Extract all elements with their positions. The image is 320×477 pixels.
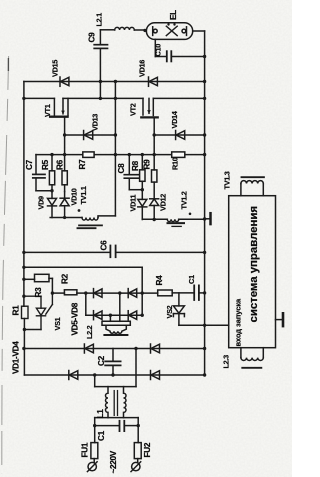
svg-text:C8: C8 <box>117 163 126 174</box>
svg-text:C1: C1 <box>97 430 106 441</box>
svg-text:FU2: FU2 <box>143 442 152 457</box>
svg-text:TV1.2: TV1.2 <box>180 191 189 209</box>
svg-text:VD10: VD10 <box>70 188 79 205</box>
svg-text:VD13: VD13 <box>91 114 100 131</box>
svg-text:L1: L1 <box>96 409 105 419</box>
svg-text:VD16: VD16 <box>138 60 147 77</box>
svg-text:VD9: VD9 <box>37 196 46 210</box>
svg-text:C2: C2 <box>97 355 106 366</box>
svg-text:C6: C6 <box>100 240 109 251</box>
svg-text:VD14: VD14 <box>170 110 179 128</box>
svg-text:R3: R3 <box>34 287 43 298</box>
svg-text:VT2: VT2 <box>129 103 138 116</box>
svg-text:VD5-VD8: VD5-VD8 <box>71 302 80 335</box>
svg-text:TV1.1: TV1.1 <box>79 186 88 204</box>
svg-text:VD12: VD12 <box>159 194 168 211</box>
svg-text:R9: R9 <box>143 159 152 170</box>
svg-text:VT1: VT1 <box>43 104 52 117</box>
svg-text:~220V: ~220V <box>109 450 118 473</box>
svg-text:VD1-VD4: VD1-VD4 <box>12 341 21 374</box>
svg-text:система управления: система управления <box>248 206 260 323</box>
svg-text:VD15: VD15 <box>51 60 60 77</box>
svg-text:VS1: VS1 <box>53 317 62 330</box>
svg-text:C7: C7 <box>25 159 34 170</box>
svg-text:EL: EL <box>169 10 178 20</box>
svg-text:вход запуска: вход запуска <box>234 298 243 347</box>
svg-text:C9: C9 <box>88 32 97 43</box>
svg-text:L2.3: L2.3 <box>222 355 231 369</box>
svg-text:FU1: FU1 <box>81 442 90 457</box>
svg-text:R10: R10 <box>171 157 180 170</box>
svg-text:R6: R6 <box>56 159 65 170</box>
svg-text:R8: R8 <box>131 160 140 171</box>
svg-text:TV1.3: TV1.3 <box>223 171 232 189</box>
svg-text:R4: R4 <box>155 275 164 286</box>
svg-text:VD11: VD11 <box>129 195 138 212</box>
svg-text:C10: C10 <box>154 44 163 57</box>
svg-text:R1: R1 <box>12 305 21 316</box>
svg-text:VS2: VS2 <box>165 305 174 318</box>
svg-text:C1: C1 <box>187 275 196 284</box>
svg-text:L2.1: L2.1 <box>95 13 104 27</box>
svg-text:R5: R5 <box>41 159 50 170</box>
svg-text:L2.2: L2.2 <box>85 325 94 339</box>
svg-text:R2: R2 <box>61 273 70 284</box>
svg-text:R7: R7 <box>78 159 87 170</box>
